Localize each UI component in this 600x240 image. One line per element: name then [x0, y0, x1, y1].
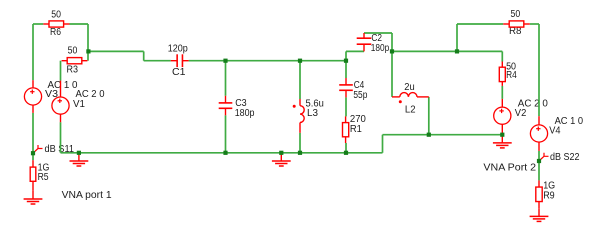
inductor L3 [300, 99, 304, 133]
wire [538, 151, 540, 181]
svg-text:50: 50 [68, 45, 78, 56]
ac voltage source V1 [52, 81, 69, 123]
node: R8 left junction [455, 49, 459, 53]
L3 polarity dot [293, 105, 296, 108]
node: ground junction left [77, 151, 81, 155]
wire [501, 86, 503, 99]
node: port2 label point [537, 159, 541, 163]
node label marker S11 [34, 145, 43, 152]
svg-text:R4: R4 [506, 70, 517, 81]
wire [143, 51, 145, 60]
svg-text:VNA Port 2: VNA Port 2 [483, 163, 536, 174]
resistor R4 [499, 62, 505, 86]
wire [501, 51, 503, 61]
wire [382, 135, 384, 153]
ground [530, 208, 549, 221]
node: C3 bottom junction [223, 151, 227, 155]
wire [225, 115, 227, 153]
resistor R1 [343, 116, 349, 143]
svg-text:VNA port 1: VNA port 1 [62, 190, 112, 201]
node: C2/L2 junction [390, 49, 394, 53]
wire [60, 61, 62, 81]
wire [189, 60, 346, 62]
capacitor C3 [219, 96, 233, 116]
ground [24, 191, 43, 204]
svg-text:L3: L3 [307, 108, 318, 119]
wire [345, 143, 347, 153]
wire [87, 24, 89, 61]
ac voltage source V4 [530, 116, 547, 151]
capacitor C1 [171, 54, 189, 67]
wire [383, 134, 503, 136]
wire [391, 33, 393, 51]
svg-text:R5: R5 [38, 172, 49, 183]
wire [538, 24, 540, 116]
svg-text:dB S22: dB S22 [550, 152, 580, 163]
resistor R9 [536, 180, 542, 208]
ground [272, 153, 291, 166]
wire [299, 133, 301, 153]
svg-text:C1: C1 [172, 67, 186, 78]
wire [32, 113, 34, 160]
svg-text:R6: R6 [50, 27, 61, 38]
wire [346, 50, 364, 52]
L2 polarity dot [399, 100, 402, 103]
wire [32, 24, 34, 80]
svg-text:50: 50 [511, 9, 521, 20]
node: ground junction mid [279, 151, 283, 155]
svg-text:55p: 55p [353, 90, 367, 101]
wire [60, 122, 62, 153]
svg-text:180p: 180p [371, 43, 390, 54]
ground [70, 153, 89, 166]
node label marker S22 [540, 153, 549, 160]
wire [299, 61, 301, 99]
wire [225, 61, 227, 96]
node: V2 ground junction [500, 133, 504, 137]
node: port1 label point [31, 151, 35, 155]
wire [530, 23, 539, 25]
ac voltage source V2 [494, 99, 511, 134]
svg-text:R8: R8 [509, 26, 522, 37]
svg-text:50: 50 [51, 9, 61, 20]
wire [392, 50, 502, 52]
resistor R5 [30, 160, 36, 191]
wire [456, 24, 458, 51]
ac voltage source V3 [24, 80, 41, 113]
node: C4/C2 junction [344, 59, 348, 63]
svg-text:L2: L2 [405, 104, 416, 115]
svg-text:V4: V4 [549, 126, 561, 137]
wire [88, 50, 143, 52]
node: L3 top junction [298, 59, 302, 63]
node: C3 top junction [223, 59, 227, 63]
ground [493, 135, 512, 148]
wire [61, 152, 383, 154]
node: R6/R3 junction [86, 49, 90, 53]
resistor R3 [62, 58, 88, 64]
node: L2 bottom junction [427, 133, 431, 137]
wire [428, 97, 430, 135]
svg-text:V2: V2 [515, 108, 527, 119]
inductor L2 [392, 93, 429, 97]
svg-text:R3: R3 [67, 65, 79, 76]
wire [391, 51, 393, 97]
wire [345, 97, 347, 116]
wire [457, 23, 503, 25]
svg-text:180p: 180p [235, 108, 255, 119]
capacitor C4 [339, 78, 353, 97]
wire [364, 32, 392, 34]
node: L3 bottom junction [298, 151, 302, 155]
capacitor C2 [357, 33, 372, 51]
svg-text:120p: 120p [168, 43, 188, 54]
resistor R6 [43, 21, 69, 27]
node: R1 bottom junction [344, 151, 348, 155]
wire [345, 51, 347, 78]
wire [70, 23, 89, 25]
svg-text:R1: R1 [350, 124, 362, 135]
wire [144, 60, 171, 62]
svg-text:V1: V1 [73, 99, 85, 110]
svg-text:2u: 2u [404, 82, 414, 93]
svg-text:R9: R9 [543, 190, 555, 201]
resistor R8 [503, 21, 530, 27]
wire [33, 23, 43, 25]
